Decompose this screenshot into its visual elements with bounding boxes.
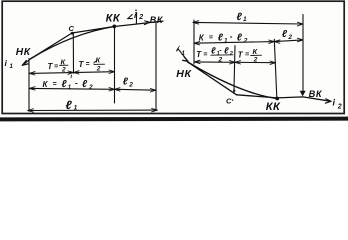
svg-text:=: = — [245, 52, 249, 59]
svg-text:ℓ: ℓ — [218, 32, 224, 43]
svg-text:НК: НК — [176, 68, 192, 80]
wire tangent1 НК-C — [31, 33, 72, 59]
extension line below С — [72, 34, 74, 74]
svg-text:С: С — [226, 97, 232, 106]
bottom scan bar — [0, 117, 348, 122]
svg-text:ℓ: ℓ — [82, 79, 88, 90]
dimension row3 line l1 — [28, 109, 158, 111]
svg-text:2: 2 — [128, 81, 133, 88]
grade arrow i1 right — [178, 49, 188, 61]
angle symbol — [128, 15, 133, 19]
road direction arrow — [144, 21, 150, 25]
svg-text:ℓ: ℓ — [237, 32, 243, 43]
svg-text:ВК: ВК — [150, 15, 164, 25]
svg-text:ℓ: ℓ — [211, 46, 216, 56]
svg-text:КК: КК — [106, 12, 121, 24]
svg-text:=: = — [53, 81, 57, 88]
svg-text:ℓ: ℓ — [282, 29, 288, 40]
extension line ВК right — [302, 15, 304, 91]
wire tangent2 C-КК-ВК — [72, 21, 163, 33]
node ВК marker triangle — [300, 91, 306, 97]
svg-text:2: 2 — [96, 65, 101, 72]
curve right НК-С-КК — [188, 62, 278, 98]
svg-text:2: 2 — [138, 14, 143, 21]
svg-text:=: = — [209, 35, 213, 42]
dimension row2 right K | l2 — [194, 40, 303, 43]
svg-text:-: - — [230, 32, 233, 41]
svg-text:ℓ: ℓ — [123, 77, 129, 88]
wire tangent1 right — [188, 62, 237, 95]
extension line below НК — [28, 59, 30, 112]
extension line below ВК — [155, 22, 157, 111]
dimension row3 right T | T — [194, 61, 275, 64]
row2 right arrowheads — [194, 38, 303, 45]
row3 right arrowheads — [194, 60, 275, 64]
extension line С right — [234, 46, 235, 94]
row1 arrowheads — [29, 70, 114, 75]
svg-text:ВК: ВК — [309, 89, 323, 99]
svg-text:2: 2 — [61, 67, 66, 74]
svg-text:=: = — [54, 64, 58, 71]
svg-text:С: С — [69, 24, 75, 33]
curve НК-С-КК — [31, 27, 114, 59]
svg-text:1: 1 — [243, 16, 247, 23]
svg-text:=: = — [203, 52, 207, 59]
row l1 arrowheads — [193, 21, 303, 26]
svg-text:ℓ: ℓ — [66, 98, 73, 112]
svg-text:-: - — [75, 79, 78, 88]
wire road after corner right — [237, 95, 332, 102]
dimension row1 line T|T — [29, 72, 114, 74]
svg-text:ℓ: ℓ — [62, 79, 68, 90]
node С dot right — [233, 90, 235, 92]
extension line НК right — [193, 20, 195, 64]
svg-text:КК: КК — [266, 101, 281, 113]
node КК dot — [112, 25, 116, 29]
svg-text:=: = — [86, 61, 90, 68]
svg-text:2: 2 — [243, 37, 248, 44]
svg-text:ℓ: ℓ — [237, 11, 243, 23]
row3 arrowheads — [28, 108, 158, 112]
svg-text:2: 2 — [229, 51, 233, 57]
svg-text:2: 2 — [218, 57, 223, 64]
outer frame — [2, 1, 344, 113]
extension line КК right — [274, 39, 277, 97]
svg-text:2: 2 — [88, 84, 93, 91]
node C dot — [71, 32, 74, 35]
node КК dot right — [275, 97, 279, 101]
row2 arrowheads — [29, 87, 156, 92]
svg-text:НК: НК — [16, 47, 31, 58]
road arrow i2 right — [325, 99, 331, 103]
dimension row2 line K | l2 — [29, 88, 156, 90]
svg-text:2: 2 — [287, 34, 292, 41]
svg-text:2: 2 — [253, 57, 258, 64]
svg-text:2: 2 — [337, 104, 342, 111]
svg-text:1: 1 — [74, 104, 78, 111]
svg-text:ℓ: ℓ — [224, 46, 229, 56]
dimension row l1 top — [193, 22, 303, 24]
extension line below КК — [114, 27, 116, 104]
grade arrow i1 — [22, 59, 31, 66]
